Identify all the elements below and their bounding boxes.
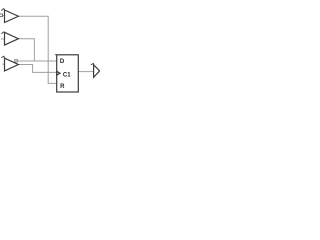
- svg-text:D: D: [60, 59, 65, 65]
- svg-text:C1: C1: [63, 72, 71, 78]
- svg-text:R: R: [60, 84, 65, 90]
